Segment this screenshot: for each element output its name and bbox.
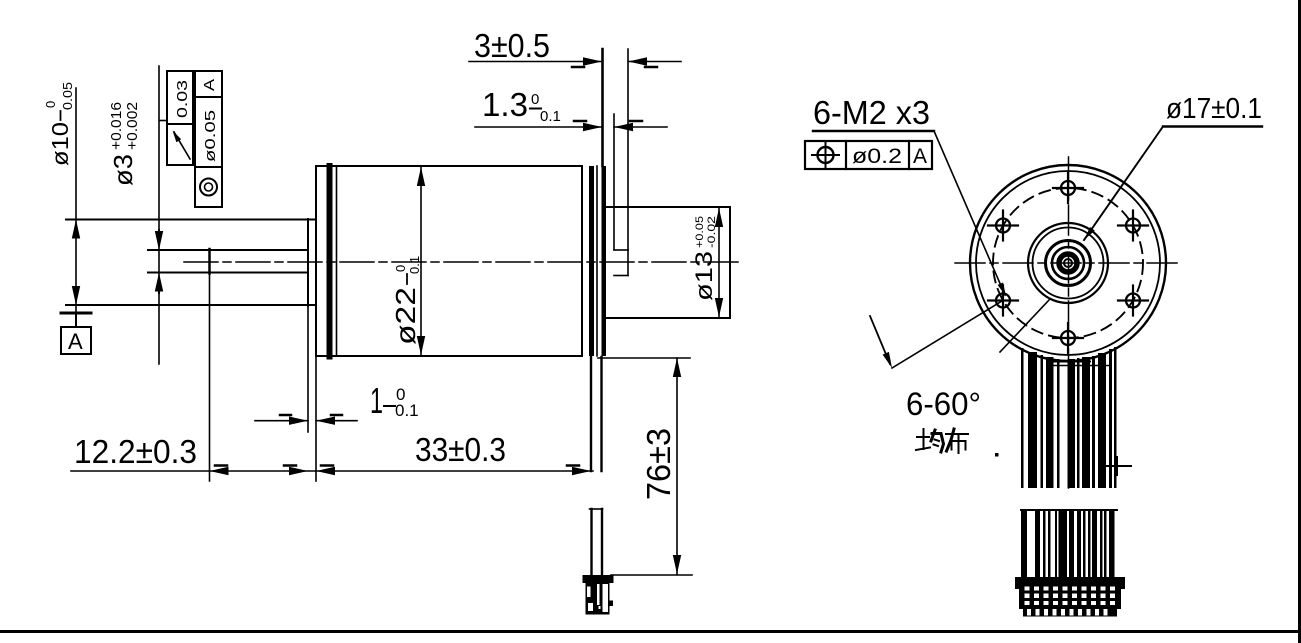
dimension o13 tolerance text (rotated) (691, 216, 718, 301)
dimension o10 line (75, 88, 77, 312)
wire: cable left edge upper (590, 357, 592, 471)
dimension 1.3 line right (614, 126, 667, 128)
svg-text:A: A (68, 329, 83, 354)
label evenly-spaced (CJK) char 1 (916, 429, 944, 452)
wire: shaft top (o3) (148, 249, 308, 251)
motor front band (thick) (327, 163, 333, 360)
svg-text:A: A (913, 145, 927, 168)
dimension 76±3 text (rotated) (640, 428, 677, 500)
svg-text:0.1: 0.1 (540, 108, 561, 125)
leader from 6-M2 label (934, 131, 1005, 295)
concentricity symbol (200, 179, 217, 196)
wire: extension line y358 (598, 357, 690, 359)
svg-text:0.1: 0.1 (395, 401, 419, 420)
wire: motor body bottom (316, 355, 582, 357)
wire: front band inner line (336, 166, 338, 356)
datum A tick (75, 313, 77, 327)
wire: motor body rear face (581, 166, 583, 356)
wire: rear boss bottom (o13) (606, 317, 730, 319)
bolt circle o17 (dashed) (993, 188, 1143, 338)
svg-text:6-M2 x3: 6-M2 x3 (813, 94, 930, 131)
wire: motor flange front face (315, 166, 317, 356)
connector front view flange (1015, 577, 1125, 584)
can rolled edge circle (976, 171, 1160, 355)
wire: diagonal line lower-left quadrant (1000, 299, 1050, 352)
screw holes 6-M2 (1053, 173, 1083, 203)
ring small (1052, 247, 1084, 279)
dimension 1 -0.1 line right (316, 420, 357, 422)
position tolerance frame (805, 141, 932, 169)
center line: left view axis (184, 261, 742, 263)
wire: boss outline top (o10) (66, 219, 316, 221)
svg-text:0: 0 (393, 265, 408, 272)
label evenly-spaced (CJK) char 2 (946, 429, 968, 453)
wire: rear stub end (627, 250, 629, 276)
feature control frame tick to o3 line (160, 120, 167, 122)
wire: extension line y574 (611, 574, 692, 576)
dimension o22 line (420, 167, 422, 355)
wire: extension line boss face down (307, 306, 309, 432)
svg-text:33±0.3: 33±0.3 (415, 431, 506, 468)
dimension o10 tolerance text (rotated) (43, 82, 75, 166)
svg-text:1: 1 (370, 380, 383, 421)
svg-text:ø13: ø13 (691, 251, 718, 301)
dimension o13 line (718, 208, 720, 317)
dimension line y471 (71, 470, 593, 472)
drawing frame right border (1298, 0, 1301, 643)
wire: rear stub top (614, 249, 628, 251)
svg-text:0.03: 0.03 (174, 80, 191, 118)
svg-text:ø3: ø3 (108, 154, 138, 186)
wire: extension line from shaft end down (209, 274, 211, 482)
wire: rear boss top (o13) (606, 206, 730, 208)
svg-text:+0.002: +0.002 (124, 102, 141, 150)
svg-text:ø22: ø22 (390, 287, 421, 345)
svg-text:3±0.5: 3±0.5 (474, 27, 550, 64)
feature control frame circularity 0.03 box (167, 71, 193, 124)
leader 6-60 arrow shaft (870, 316, 890, 364)
shaft circle (1059, 254, 1077, 272)
connector side view right tab (610, 601, 614, 607)
wire: rear band inner line (596, 166, 598, 356)
connector side view flange (583, 575, 614, 583)
svg-text:ø10: ø10 (47, 122, 73, 166)
connector side view body (586, 583, 610, 615)
svg-text:ø0.05: ø0.05 (202, 110, 219, 162)
wire: rear stub bottom (614, 275, 628, 277)
svg-text:6-60°: 6-60° (906, 386, 981, 422)
dimension 1 -0.1 line left (255, 420, 308, 422)
drawing frame bottom border (0, 630, 1301, 633)
connector front view teeth (1023, 609, 1117, 617)
wire: extension line x602 above body (601, 49, 604, 166)
svg-text:A: A (201, 79, 218, 91)
shaft center (1064, 259, 1072, 267)
small dot (995, 453, 999, 457)
wire: rear boss end face (729, 207, 731, 318)
motor outer circle o22 (970, 165, 1166, 361)
ring o5 equivalent (1046, 241, 1091, 286)
svg-text:0.05: 0.05 (60, 82, 75, 110)
svg-text:ø0.2: ø0.2 (852, 145, 902, 168)
bearing boss ring outer (1028, 223, 1108, 303)
dimension 3±0.5 line left (469, 61, 602, 63)
svg-text:ø17±0.1: ø17±0.1 (1166, 93, 1262, 125)
label 6-M2 underline (813, 130, 934, 132)
label o17 underline (1163, 125, 1262, 127)
dimension 76±3 line (676, 358, 678, 574)
wire: cable right edge upper (600, 357, 602, 471)
ribbon cable upper segment (1021, 347, 1117, 488)
wire: extension line flange face down (315, 356, 317, 481)
bearing boss ring inner (1033, 228, 1104, 299)
wire: shaft bottom (o3) (148, 272, 308, 274)
ribbon cable lower segment (1021, 509, 1117, 511)
svg-text:1.3: 1.3 (482, 86, 528, 123)
dimension o22 tolerance text (rotated) (390, 256, 422, 345)
wire: cable slot edge 1 (1050, 361, 1090, 363)
wire: extension line x628 from top dims (627, 49, 629, 250)
svg-text:0: 0 (531, 91, 539, 108)
datum A line (61, 312, 91, 315)
wire: extension line x614 (613, 114, 615, 250)
wire: motor body top (316, 165, 582, 167)
leader from o17 label (1084, 127, 1163, 241)
svg-text:76±3: 76±3 (640, 428, 677, 500)
wire: cable lower segment top tick (590, 508, 603, 510)
position symbol (818, 147, 834, 163)
dimension 1.3 line left (475, 126, 602, 128)
leader 6-60 line to hole (892, 301, 1002, 368)
svg-text:+0.05: +0.05 (694, 216, 706, 248)
center line horizontal right view (955, 262, 1180, 264)
wire: small cross near cable bottom (1105, 465, 1131, 467)
wire: shaft end face (208, 249, 211, 274)
wire: boss outline bottom (o10) (66, 304, 316, 306)
wire: cable right edge lower (601, 509, 603, 575)
dimension o3 tolerance text (rotated) (108, 102, 141, 186)
dimension 3±0.5 line right (628, 61, 681, 63)
datum A box (61, 327, 91, 354)
motor rear plate (thick) (602, 166, 607, 356)
svg-text:12.2±0.3: 12.2±0.3 (74, 433, 197, 470)
motor rear band (thick) (589, 166, 594, 356)
wire: cable left edge lower (590, 509, 592, 575)
feature control frame concentricity strip (195, 71, 222, 207)
center line vertical right view (1068, 157, 1070, 488)
svg-text:+0.016: +0.016 (108, 102, 125, 150)
dimension o3 line (158, 66, 160, 364)
feature control frame leader box (167, 124, 193, 165)
connector front view body (1019, 584, 1121, 610)
wire: cable slot edge 2 (1053, 365, 1110, 367)
svg-text:0.1: 0.1 (407, 256, 422, 274)
wire: boss front face (307, 219, 309, 306)
svg-text:0: 0 (43, 101, 58, 108)
